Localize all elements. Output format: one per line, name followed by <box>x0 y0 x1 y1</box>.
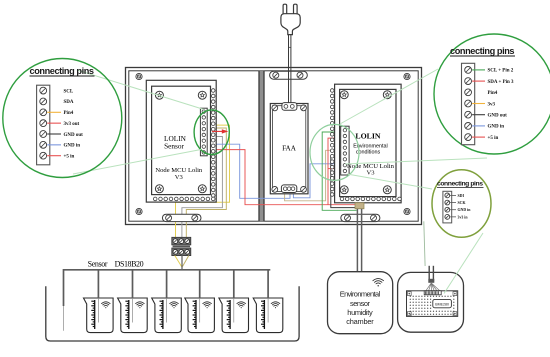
left callout pin GND in <box>40 141 47 148</box>
left callout pin +5 in <box>40 152 47 159</box>
cable clamp top <box>270 71 308 79</box>
svg-text:3v3 in: 3v3 in <box>458 215 469 219</box>
terminal block row2 <box>172 248 191 256</box>
leader line right callout lower <box>345 158 487 164</box>
right callout pin 3v3 <box>465 100 472 107</box>
right callout pin +5 in <box>465 134 472 141</box>
small callout pin GND in <box>445 207 450 212</box>
enclosure outer wall <box>126 68 422 225</box>
enclosure screw top-left <box>136 73 142 79</box>
wire yellow fan below block <box>175 256 182 267</box>
power plug body <box>281 14 300 35</box>
svg-text:GND out: GND out <box>488 114 508 119</box>
NodeMCU board U1 outer <box>146 80 216 202</box>
U2 screw bottom-right <box>383 186 391 194</box>
wire red +5 right <box>328 168 341 170</box>
NodeMCU board U2 outer <box>335 84 402 203</box>
right callout header <box>462 63 475 144</box>
beaker B6 with DS18B20 probe <box>253 270 283 333</box>
svg-text:V3: V3 <box>366 170 375 177</box>
beaker B4 with DS18B20 probe <box>185 270 215 333</box>
wire black GND out <box>331 156 359 207</box>
leader line small callout left <box>347 174 432 189</box>
power plug prong right <box>294 4 298 15</box>
beaker B3 with DS18B20 probe <box>152 270 182 333</box>
svg-text:GND out: GND out <box>64 133 84 138</box>
left callout pin 3v3 out <box>40 120 47 127</box>
BME280 enclosure <box>398 272 464 332</box>
svg-text:SCL: SCL <box>64 89 74 94</box>
U2 screw top-left <box>340 91 348 99</box>
U1 screw top-right <box>198 91 206 99</box>
wire red SDA <box>328 138 341 205</box>
wire green SCL <box>322 132 356 210</box>
BME280 breadboard <box>407 291 458 317</box>
FAA screw top-left <box>272 105 278 111</box>
FAA bottom connector <box>281 185 296 193</box>
left callout header <box>37 85 50 165</box>
cable clamp bottom-left <box>162 214 201 221</box>
breadboard corner holes <box>407 292 411 296</box>
leader line left callout upper <box>77 70 204 110</box>
svg-text:connecting pins: connecting pins <box>30 66 95 76</box>
svg-text:connecting pins: connecting pins <box>437 181 483 188</box>
cable clamp bottom-right <box>341 214 380 221</box>
U2 screw top-right <box>383 91 391 99</box>
svg-text:LOLIN: LOLIN <box>355 132 380 141</box>
terminal block bar <box>173 246 190 248</box>
svg-text:SCL + Pin 2: SCL + Pin 2 <box>488 69 514 74</box>
svg-text:Sensor: Sensor <box>88 260 108 269</box>
U1 screw top-left <box>155 91 163 99</box>
svg-text:Pin4: Pin4 <box>488 91 498 96</box>
wire blue right board <box>293 164 341 198</box>
svg-text:Node MCU Lolin: Node MCU Lolin <box>155 167 203 174</box>
enclosure inner wall <box>129 71 418 221</box>
right callout pin GND out <box>465 111 472 118</box>
left callout pin SCL <box>40 87 47 94</box>
U2 bottom pin row <box>340 197 344 201</box>
detail ellipse U2 pins <box>310 124 359 180</box>
wire gray GND <box>182 137 223 238</box>
BME280 cable <box>428 266 430 282</box>
power cord <box>288 35 290 103</box>
U1 screw bottom-left <box>155 185 163 193</box>
BME280 fan wires <box>426 283 432 291</box>
U1 bottom pin row <box>153 197 157 201</box>
wire block to bus <box>181 255 183 270</box>
tank <box>46 286 299 341</box>
left callout pin GND out <box>40 131 47 138</box>
svg-text:sensor: sensor <box>350 299 371 308</box>
red arrow annotation <box>212 130 223 132</box>
divider wall <box>259 71 265 221</box>
BME280 chip <box>433 299 452 307</box>
detail ellipse U1 pins <box>194 110 229 155</box>
power plug prong left <box>283 4 287 15</box>
svg-text:connecting pins: connecting pins <box>450 46 515 56</box>
svg-text:humidity: humidity <box>347 308 373 317</box>
enclosure screw bottom-left <box>136 208 142 214</box>
right callout circle <box>434 34 550 154</box>
gray cable to chamber <box>356 209 358 272</box>
U1 connector strip <box>200 108 207 156</box>
wire blue GND in <box>214 144 290 198</box>
right callout pin SDA + Pin 3 <box>465 78 472 85</box>
NodeMCU board U1 inner <box>152 86 211 194</box>
U1 screw bottom-right <box>198 185 206 193</box>
right callout pin GND in <box>465 123 472 130</box>
NodeMCU board U2 inner <box>340 89 396 196</box>
beaker B2 with DS18B20 probe <box>118 270 148 333</box>
U2 connector strip <box>341 126 349 175</box>
svg-text:3v3 out: 3v3 out <box>64 122 80 127</box>
wire to BME280 <box>424 221 425 266</box>
terminal block row1 <box>172 237 191 245</box>
FAA power supply outer <box>270 104 308 194</box>
U1 right pin header <box>211 89 215 93</box>
svg-text:FAA: FAA <box>282 145 297 153</box>
svg-text:GND in: GND in <box>488 125 505 130</box>
svg-text:BME280: BME280 <box>435 302 449 306</box>
wire red +5 <box>214 150 356 209</box>
small callout pin SCK <box>445 200 450 205</box>
svg-text:Environmental: Environmental <box>340 290 381 299</box>
FAA top connector <box>282 103 297 111</box>
svg-text:Sensor: Sensor <box>164 142 184 151</box>
svg-text:V3: V3 <box>175 174 184 181</box>
FAA screw bottom-left <box>272 187 278 193</box>
sensor bus wire <box>64 270 271 306</box>
svg-text:GND in: GND in <box>64 144 81 149</box>
left callout pin SDA <box>40 98 47 105</box>
small callout circle <box>432 170 491 238</box>
left callout circle <box>3 59 122 178</box>
wire yellow Pin4 <box>176 125 230 237</box>
right callout pin SCL + Pin 2 <box>465 67 472 74</box>
leader line left callout lower <box>73 150 201 175</box>
FAA screw top-right <box>301 105 307 111</box>
leader line right callout upper <box>340 69 438 124</box>
svg-text:SDA + Pin 3: SDA + Pin 3 <box>488 80 515 85</box>
beaker B1 with DS18B20 probe <box>84 270 114 333</box>
humidity chamber <box>328 272 393 334</box>
U2 left pin header <box>330 89 334 93</box>
svg-text:SDI: SDI <box>458 194 465 198</box>
leftmost probe <box>63 306 65 331</box>
svg-text:3v3: 3v3 <box>488 102 496 107</box>
chamber wifi icon <box>373 279 384 287</box>
cable connector 4pin <box>355 203 364 209</box>
FAA power supply inner <box>273 106 306 192</box>
U2 screw bottom-left <box>340 186 348 194</box>
right callout pin Pin4 <box>465 89 472 96</box>
wire tan FAA <box>285 150 341 201</box>
BME280 connector receptacle <box>424 291 441 295</box>
beaker B5 with DS18B20 probe <box>219 270 249 333</box>
wire khaki <box>186 128 226 238</box>
breadboard dots <box>410 296 411 297</box>
enclosure screw bottom-right <box>404 208 410 214</box>
FAA screw bottom-right <box>301 187 307 193</box>
enclosure screw top-right <box>404 73 410 79</box>
svg-text:SDA: SDA <box>64 100 74 105</box>
small callout header <box>443 191 452 223</box>
svg-text:GND in: GND in <box>458 208 472 212</box>
svg-text:+5 in: +5 in <box>488 136 499 141</box>
small callout pin 3v3 in <box>445 214 450 219</box>
svg-text:Pin4: Pin4 <box>64 111 74 116</box>
svg-text:DS18B20: DS18B20 <box>115 260 144 269</box>
small callout pin SDI <box>445 193 450 198</box>
left callout pin Pin4 <box>40 109 47 116</box>
svg-text:chamber: chamber <box>346 317 374 326</box>
svg-text:+5 in: +5 in <box>64 155 75 160</box>
leader line small callout to BME280 <box>444 233 483 294</box>
svg-text:SCK: SCK <box>458 201 466 205</box>
